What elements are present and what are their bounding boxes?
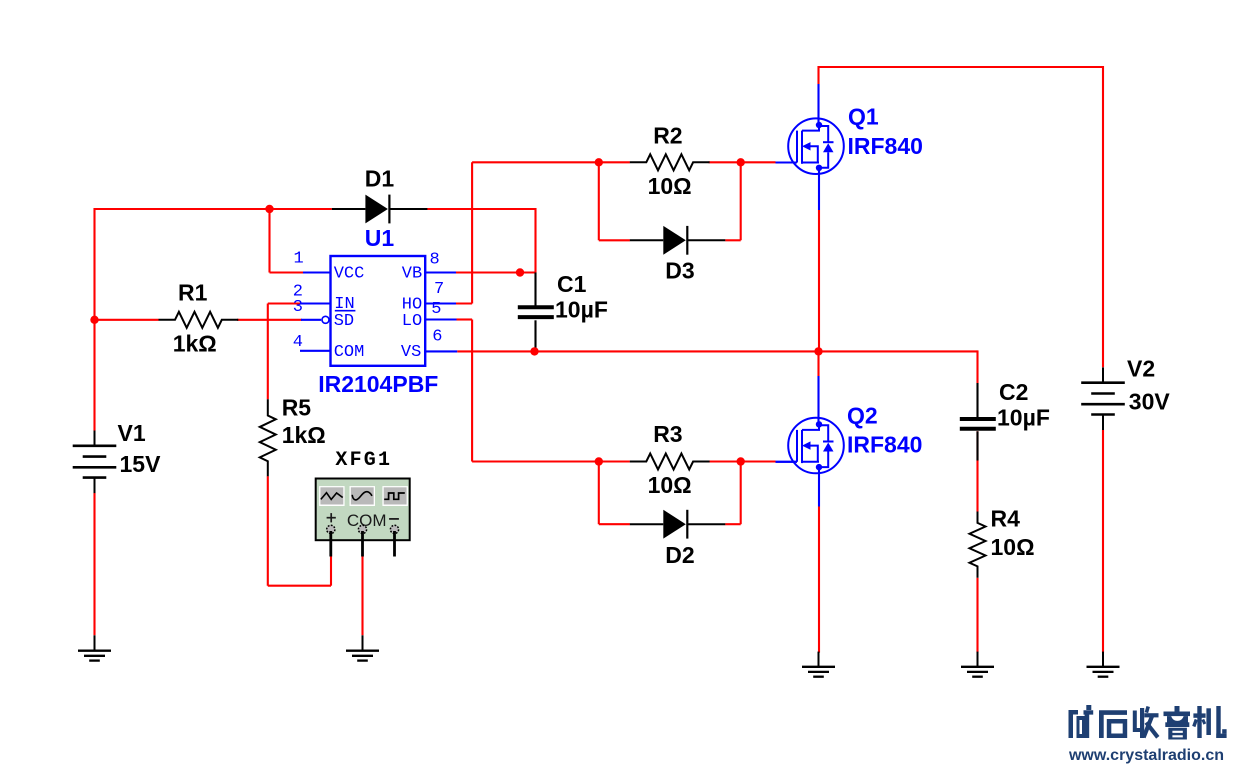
wire R3/D2 right loop: [725, 462, 741, 525]
transistor Q1 IRF840: [776, 104, 923, 175]
wire top-left horizontal (V1+ to D1): [95, 208, 332, 210]
pin 2 IN stub: [301, 302, 331, 304]
resistor R1: [159, 280, 239, 357]
svg-text:D2: D2: [665, 542, 694, 568]
node R3 left junction: [595, 457, 603, 465]
resistor R4: [970, 506, 1035, 578]
resistor R2: [630, 122, 710, 199]
pin label VS: [401, 343, 421, 362]
wire R3 right lead: [709, 460, 741, 462]
pin 7 HO stub: [425, 302, 456, 304]
wire R1 to SD pin: [237, 319, 302, 321]
svg-text:XFG1: XFG1: [335, 449, 392, 472]
pin label LO: [402, 312, 422, 331]
pin number 2: [293, 282, 303, 301]
svg-text:IRF840: IRF840: [847, 432, 922, 458]
node D1 anode / VCC junction: [265, 205, 273, 213]
node R3 right junction: [737, 457, 745, 465]
pin label SD: [334, 312, 354, 331]
svg-text:5: 5: [431, 300, 441, 319]
ground XFG1 COM: [346, 635, 379, 660]
pin number 8: [430, 251, 440, 270]
function generator XFG1: [316, 449, 410, 557]
wire R4 to ground: [976, 578, 978, 653]
svg-text:15V: 15V: [120, 451, 162, 477]
battery V1 15V: [73, 420, 161, 493]
pin label HO: [402, 296, 422, 315]
wire VB pin to C1 top: [456, 271, 536, 273]
wire IN pin to R5 top: [268, 304, 301, 400]
capacitor C2: [960, 379, 1050, 431]
node V1 / R1 junction: [90, 316, 98, 324]
svg-text:COM: COM: [334, 343, 365, 362]
svg-text:R1: R1: [178, 280, 208, 306]
svg-text:IR2104PBF: IR2104PBF: [318, 371, 438, 397]
pin number 1: [294, 250, 304, 269]
node VB wire junction: [516, 268, 524, 276]
svg-text:1: 1: [294, 250, 304, 269]
svg-text:VCC: VCC: [334, 265, 365, 284]
wire R2/D3 left loop: [599, 162, 630, 240]
pin number 4: [293, 333, 303, 352]
logo crystalradio Chinese characters: [1069, 705, 1227, 740]
wire R2 right lead: [709, 161, 741, 163]
node R2 left junction: [595, 158, 603, 166]
pin 1 VCC stub: [303, 271, 331, 273]
wire Q2 gate: [741, 460, 797, 462]
svg-text:SD: SD: [334, 312, 354, 331]
ground R4: [961, 652, 994, 677]
diode D2: [630, 510, 726, 568]
wire Q1 drain vertical: [817, 66, 819, 125]
node R2 right junction: [737, 158, 745, 166]
svg-text:8: 8: [430, 251, 440, 270]
svg-text:www.crystalradio.cn: www.crystalradio.cn: [1068, 747, 1224, 764]
svg-text:V2: V2: [1127, 355, 1155, 381]
wire R5 bottom to XFG1 plus terminal: [268, 476, 331, 586]
wire R2/D3 right loop: [725, 162, 741, 240]
ground V1: [78, 635, 111, 660]
svg-text:10µF: 10µF: [555, 297, 608, 323]
wire top rail from Q1 drain to V2 positive: [819, 66, 1104, 367]
node Q1 source / VS junction: [814, 347, 822, 355]
wire VCC branch from D1 anode junction: [270, 209, 304, 273]
svg-text:R3: R3: [653, 421, 682, 447]
pin label COM: [334, 343, 365, 362]
op-amp U1 IR2104PBF body: [318, 225, 438, 397]
svg-text:V1: V1: [118, 420, 146, 446]
wire V2 to ground: [1102, 430, 1104, 653]
wire R3/D2 left loop: [599, 462, 630, 525]
wire C2 branch down from VS rail: [976, 350, 978, 417]
resistor R3: [630, 421, 710, 498]
pin number 7: [434, 280, 444, 299]
pin number 3: [293, 298, 303, 317]
pin 4 COM stub: [300, 350, 331, 352]
pin number 6: [432, 327, 442, 346]
svg-text:Q1: Q1: [848, 104, 879, 130]
pin 8 VB stub: [425, 271, 456, 273]
svg-text:10Ω: 10Ω: [648, 173, 692, 199]
node C1 bottom / VS junction: [530, 347, 538, 355]
svg-text:10Ω: 10Ω: [648, 472, 692, 498]
svg-text:10Ω: 10Ω: [991, 534, 1035, 560]
svg-text:VB: VB: [402, 265, 422, 284]
wire HO pin up to R2: [456, 162, 599, 303]
pin label VCC: [334, 265, 365, 284]
pin 3 SD stub and bubble: [301, 316, 329, 323]
svg-text:1kΩ: 1kΩ: [282, 422, 326, 448]
wire LO pin down to R3: [457, 320, 599, 462]
svg-text:30V: 30V: [1129, 389, 1171, 415]
wire VS rail horizontal: [457, 350, 977, 352]
wire Q2 source to ground: [818, 467, 820, 652]
transistor Q2 IRF840: [776, 403, 923, 474]
diode D1: [332, 166, 428, 224]
wire C1 bottom lead: [534, 320, 536, 351]
wire C2 to R4: [976, 431, 978, 511]
wire R2 left lead: [599, 161, 630, 163]
svg-text:4: 4: [293, 333, 303, 352]
wire Q1 gate: [741, 161, 797, 163]
svg-text:6: 6: [432, 327, 442, 346]
svg-text:C1: C1: [557, 271, 587, 297]
svg-text:10µF: 10µF: [997, 405, 1050, 431]
pin 6 VS stub: [425, 350, 457, 352]
wire left vertical V1 branch: [93, 208, 95, 431]
wire V1 to ground: [93, 493, 95, 635]
ground Q2 source: [802, 652, 835, 677]
wire C1 top lead: [534, 273, 536, 307]
wire V1 junction to R1: [95, 319, 159, 321]
svg-text:IRF840: IRF840: [848, 133, 923, 159]
pin label IN with overbar: [334, 295, 355, 314]
wire Q2 drain vertical: [817, 351, 819, 424]
capacitor C1: [518, 271, 608, 323]
wire R3 left lead: [599, 460, 630, 462]
wire Q1 source vertical: [818, 168, 820, 352]
wire D1 cathode to corner and down to VB: [426, 208, 536, 273]
svg-text:3: 3: [293, 298, 303, 317]
diode D3: [630, 226, 726, 284]
svg-text:C2: C2: [999, 379, 1028, 405]
svg-text:R5: R5: [282, 395, 312, 421]
svg-text:R2: R2: [653, 122, 682, 148]
svg-text:7: 7: [434, 280, 444, 299]
svg-text:D1: D1: [365, 166, 395, 192]
battery V2 30V: [1081, 355, 1170, 430]
ground V2: [1087, 652, 1120, 677]
svg-text:R4: R4: [991, 506, 1021, 532]
pin number 5: [431, 300, 441, 319]
svg-text:D3: D3: [665, 257, 694, 283]
wire XFG1 COM to ground: [361, 557, 363, 636]
svg-text:LO: LO: [402, 312, 422, 331]
svg-text:1kΩ: 1kΩ: [173, 331, 217, 357]
svg-text:VS: VS: [401, 343, 421, 362]
resistor R5: [260, 395, 326, 477]
svg-text:U1: U1: [365, 225, 395, 251]
pin 5 LO stub: [425, 318, 456, 320]
logo crystalradio url: [1068, 747, 1224, 764]
svg-text:Q2: Q2: [847, 403, 878, 429]
pin label VB: [402, 265, 422, 284]
